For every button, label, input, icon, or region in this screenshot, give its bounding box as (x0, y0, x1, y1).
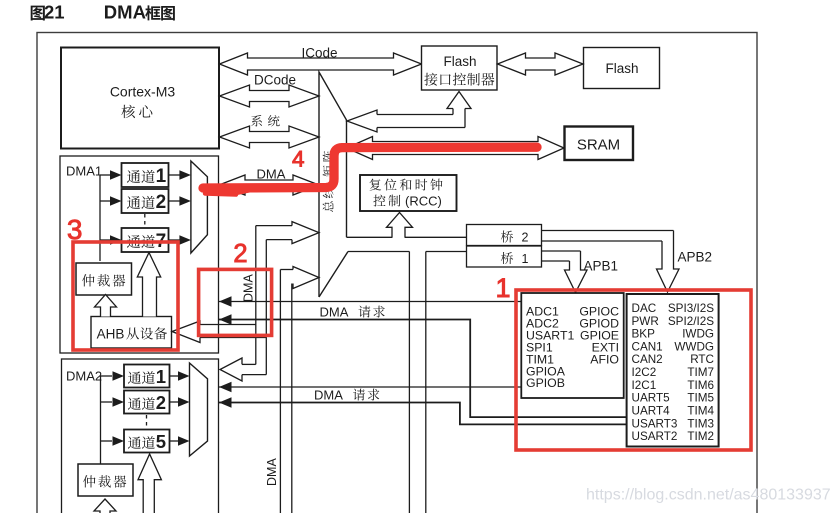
svg-text:3: 3 (67, 214, 83, 245)
svg-text:2: 2 (156, 392, 166, 413)
wire DMA1 channels to mux (169, 174, 181, 176)
svg-text:DMA: DMA (314, 388, 343, 403)
arrow bus matrix to SRAM (347, 137, 565, 160)
wire DMA2 arbiter to channels (100, 376, 102, 464)
box Flash (584, 48, 660, 89)
svg-text:PWR: PWR (632, 315, 659, 328)
svg-text:SPI3/I2S: SPI3/I2S (668, 302, 714, 315)
box DMA2 arbiter 仲裁器 (78, 464, 133, 496)
arrow arbiter2 feed up (94, 499, 116, 513)
arrow DMA2 channels big up arrow (138, 454, 161, 513)
svg-text:https://blog.csdn.net/as480133: https://blog.csdn.net/as480133937 (586, 487, 831, 504)
svg-text:DAC: DAC (632, 302, 657, 315)
svg-text:TIM5: TIM5 (687, 392, 714, 405)
svg-text:Flash: Flash (605, 61, 638, 76)
svg-text:SRAM: SRAM (577, 137, 620, 154)
svg-text:WWDG: WWDG (674, 340, 714, 353)
label DMA vertical (bottom) (265, 458, 279, 486)
svg-text:BKP: BKP (632, 328, 656, 341)
arrow DMA (DMA1 to bus matrix) (219, 175, 319, 195)
arrow DMA1 channels big up arrow (137, 253, 160, 317)
bus matrix 总线矩阵 (319, 72, 347, 297)
svg-text:USART3: USART3 (632, 417, 678, 430)
svg-text:I2C1: I2C1 (632, 379, 657, 392)
svg-text:4: 4 (292, 147, 305, 172)
svg-text:2: 2 (522, 231, 529, 245)
arrow APB2 down to peripherals (542, 230, 674, 232)
wire bus to bridges (upper) (347, 236, 393, 238)
box Cortex-M3 core (61, 48, 219, 149)
svg-text:APB2: APB2 (678, 250, 713, 265)
arrow arbiter1 feed up (95, 295, 117, 317)
svg-text:I2C2: I2C2 (632, 366, 657, 379)
svg-text:RTC: RTC (690, 353, 714, 366)
box DMA1 channel7 通道7 (122, 228, 169, 252)
svg-text:DCode: DCode (254, 73, 296, 88)
arrow ICode (Cortex to Flash interface) (220, 53, 422, 75)
svg-text:USART2: USART2 (632, 430, 678, 443)
svg-text:21: 21 (44, 2, 65, 23)
box DMA2 controller (62, 359, 219, 513)
dashed line DMA1 channels (144, 214, 146, 227)
svg-text:Cortex-M3: Cortex-M3 (110, 84, 176, 100)
svg-text:AHB: AHB (97, 327, 125, 342)
svg-text:DMA: DMA (242, 274, 256, 302)
wire DMA request line A to DMA1 (219, 301, 521, 303)
svg-text:DMA: DMA (257, 167, 286, 182)
elbow arrow AHB slave / DMA2 to bus matrix (200, 324, 256, 326)
svg-text:DMA: DMA (104, 2, 146, 23)
wire vertical bus line 2 (425, 252, 427, 513)
box SRAM (565, 127, 634, 161)
box DMA1 controller (60, 156, 219, 353)
svg-text:TIM3: TIM3 (687, 417, 714, 430)
svg-text:1: 1 (522, 252, 529, 266)
svg-text:TIM4: TIM4 (687, 404, 714, 417)
box APB2 peripherals list (627, 294, 719, 447)
svg-text:TIM2: TIM2 (687, 430, 714, 443)
wire DMA2 channels to mux (170, 375, 181, 377)
wire DMA request line B to DMA1 (219, 320, 627, 418)
arrow Flash interface to Flash (498, 53, 584, 75)
box APB1 peripherals list (521, 293, 623, 398)
svg-text:1: 1 (496, 273, 511, 303)
svg-text:Flash: Flash (443, 54, 476, 69)
box Flash interface controller (422, 46, 498, 90)
box DMA1 AHB slave AHB从设备 (91, 317, 172, 349)
svg-text:CAN2: CAN2 (632, 353, 663, 366)
title 图21 DMA框图 (31, 6, 45, 21)
red annotation rectangle 2 (199, 269, 272, 335)
dashed line DMA2 channels (146, 415, 148, 428)
svg-text:TIM6: TIM6 (687, 379, 714, 392)
svg-text:CAN1: CAN1 (632, 340, 663, 353)
svg-text:1: 1 (156, 366, 166, 387)
svg-text:UART4: UART4 (632, 404, 671, 417)
box DMA1 channel2 通道2 (122, 189, 169, 213)
box DMA2 channel5 通道5 (124, 430, 170, 453)
label DMA vertical (red box 2) (242, 274, 256, 302)
svg-text:DMA: DMA (320, 305, 349, 320)
svg-text:DMA2: DMA2 (66, 369, 102, 384)
svg-text:1: 1 (156, 166, 167, 187)
wire DMA request line C to DMA2 (219, 386, 521, 388)
box DMA2 channel1 通道1 (124, 365, 170, 388)
box DMA2 channel2 通道2 (124, 391, 170, 414)
box reset and clock control RCC (360, 175, 457, 211)
svg-text:ICode: ICode (301, 46, 337, 61)
mux trapezoid DMA1 (191, 161, 208, 253)
wire DMA request line D to DMA2 (219, 403, 627, 425)
svg-text:AFIO: AFIO (590, 352, 619, 366)
svg-text:IWDG: IWDG (682, 328, 714, 341)
arrow 系统 (system, Cortex to bus matrix) (220, 126, 320, 148)
mux trapezoid DMA2 (190, 363, 208, 456)
svg-text:DMA: DMA (265, 458, 279, 486)
wire bus to bridges (lower) (348, 251, 409, 253)
svg-text:5: 5 (156, 431, 166, 452)
svg-text:APB1: APB1 (584, 259, 619, 274)
svg-text:2: 2 (233, 240, 247, 268)
svg-text:DMA1: DMA1 (66, 164, 102, 179)
box bridge 2 桥2 (467, 225, 542, 246)
svg-text:2: 2 (156, 192, 167, 213)
svg-text:GPIOB: GPIOB (526, 376, 565, 390)
svg-text:SPI2/I2S: SPI2/I2S (668, 315, 714, 328)
red annotation rectangle 1 (516, 290, 751, 450)
red thick highlight line (annotation 4 path) (203, 147, 537, 188)
arrow DCode (Cortex to bus matrix) (220, 85, 320, 107)
svg-text:(RCC): (RCC) (405, 194, 442, 209)
elbow arrow bus matrix to Flash interface (377, 114, 453, 116)
wire vertical bus line 1 (408, 252, 410, 513)
box DMA1 channel1 通道1 (122, 163, 169, 187)
svg-text:TIM7: TIM7 (687, 366, 714, 379)
wire DMA1 arbiter to channels (99, 175, 101, 261)
arrow up into RCC (387, 213, 413, 238)
red annotation rectangle 3 (73, 242, 178, 350)
arrow APB1 down to peripherals (542, 250, 581, 252)
svg-text:UART5: UART5 (632, 392, 671, 405)
box bridge 1 桥1 (467, 246, 542, 267)
box DMA1 arbiter 仲裁器 (76, 263, 132, 295)
elbow arrow DMA vertical bus to bus matrix (279, 270, 281, 513)
